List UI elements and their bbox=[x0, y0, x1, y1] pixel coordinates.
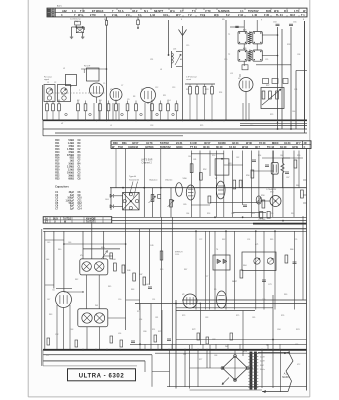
svg-text:C-70uF/25V: C-70uF/25V bbox=[266, 189, 277, 191]
svg-text:R42: R42 bbox=[75, 279, 78, 281]
svg-text:C61: C61 bbox=[193, 159, 196, 161]
svg-text:L9: L9 bbox=[160, 69, 162, 71]
svg-text:R65: R65 bbox=[270, 239, 273, 241]
svg-text:R1: R1 bbox=[58, 100, 60, 102]
svg-text:BUX: BUX bbox=[53, 218, 58, 220]
svg-text:N ARNUS: N ARNUS bbox=[218, 9, 230, 13]
svg-text:2 44: 2 44 bbox=[112, 13, 118, 17]
svg-text:50μF: 50μF bbox=[69, 203, 75, 205]
svg-text:C64: C64 bbox=[186, 213, 189, 215]
svg-text:1.2kΩ: 1.2kΩ bbox=[68, 143, 74, 145]
svg-text:Channel 2: Channel 2 bbox=[142, 163, 153, 165]
svg-text:F 30: F 30 bbox=[264, 13, 270, 17]
svg-text:R24: R24 bbox=[219, 92, 222, 94]
svg-text:1 4: 1 4 bbox=[72, 9, 76, 13]
svg-text:L2: L2 bbox=[63, 68, 65, 70]
svg-text:Volume: Volume bbox=[165, 180, 173, 182]
svg-text:C85: C85 bbox=[252, 317, 255, 319]
svg-text:C40: C40 bbox=[250, 125, 253, 127]
svg-text:C48: C48 bbox=[70, 329, 73, 331]
svg-text:C55: C55 bbox=[293, 22, 296, 24]
svg-text:R53: R53 bbox=[207, 213, 210, 215]
svg-text:47kΩ: 47kΩ bbox=[68, 151, 74, 154]
svg-text:circuit: circuit bbox=[186, 78, 191, 81]
svg-text:R12: R12 bbox=[55, 146, 60, 148]
svg-text:T4: T4 bbox=[216, 249, 218, 251]
svg-text:C83: C83 bbox=[205, 317, 208, 319]
svg-text:2 44: 2 44 bbox=[238, 13, 244, 17]
svg-text:W 6: W 6 bbox=[214, 13, 219, 17]
svg-text:R6: R6 bbox=[115, 100, 117, 102]
svg-text:C79: C79 bbox=[262, 299, 265, 301]
svg-text:R56: R56 bbox=[246, 175, 249, 177]
svg-text:C54: C54 bbox=[139, 319, 142, 321]
svg-text:4μF: 4μF bbox=[70, 194, 75, 197]
svg-text:TA/TO2: TA/TO2 bbox=[160, 141, 169, 145]
svg-text:W 34: W 34 bbox=[242, 145, 249, 149]
svg-text:R9: R9 bbox=[151, 100, 153, 102]
svg-text:74 S: 74 S bbox=[200, 13, 206, 17]
svg-text:470kΩ: 470kΩ bbox=[67, 154, 74, 157]
svg-text:Capacitors: Capacitors bbox=[55, 185, 69, 189]
svg-text:24 31: 24 31 bbox=[176, 141, 183, 145]
svg-text:B.U: B.U bbox=[106, 199, 110, 201]
svg-text:L1: L1 bbox=[61, 94, 63, 96]
svg-text:N 1: N 1 bbox=[144, 9, 149, 13]
svg-text:7 2: 7 2 bbox=[188, 13, 192, 17]
svg-text:4 1: 4 1 bbox=[240, 9, 244, 13]
svg-text:10kΩ: 10kΩ bbox=[68, 164, 74, 166]
svg-text:R2: R2 bbox=[77, 100, 79, 102]
svg-text:C52: C52 bbox=[55, 334, 58, 336]
svg-text:Tweeter A: Tweeter A bbox=[129, 178, 139, 181]
svg-text:4 T: 4 T bbox=[180, 9, 184, 13]
svg-text:43 57: 43 57 bbox=[132, 141, 139, 145]
svg-text:R40: R40 bbox=[58, 249, 61, 251]
svg-text:43 44: 43 44 bbox=[232, 141, 239, 145]
svg-text:50c/s: 50c/s bbox=[260, 369, 265, 371]
svg-text:R76: R76 bbox=[281, 315, 284, 317]
svg-text:1 TC: 1 TC bbox=[294, 9, 300, 13]
svg-text:R25: R25 bbox=[200, 125, 203, 127]
svg-text:R74: R74 bbox=[296, 329, 299, 331]
svg-text:C11: C11 bbox=[150, 59, 153, 61]
svg-text:First IF: First IF bbox=[84, 65, 91, 68]
svg-text:54kΩ: 54kΩ bbox=[68, 139, 74, 142]
svg-text:R62: R62 bbox=[222, 239, 225, 241]
svg-text:1.5kΩ: 1.5kΩ bbox=[68, 170, 74, 172]
svg-text:C11: C11 bbox=[78, 200, 83, 202]
svg-text:R54: R54 bbox=[258, 155, 261, 157]
svg-text:8μF: 8μF bbox=[70, 206, 75, 208]
svg-text:L 40: L 40 bbox=[252, 13, 258, 17]
svg-text:30 8: 30 8 bbox=[290, 13, 296, 17]
svg-text:43/TO3: 43/TO3 bbox=[145, 145, 154, 149]
svg-text:4R: 4R bbox=[304, 142, 307, 145]
svg-text:R71: R71 bbox=[137, 311, 140, 313]
svg-text:C14: C14 bbox=[78, 207, 83, 210]
svg-text:40 57: 40 57 bbox=[204, 141, 211, 145]
svg-text:L11: L11 bbox=[46, 355, 49, 357]
svg-text:W E: W E bbox=[274, 9, 279, 13]
svg-text:T 6: T 6 bbox=[192, 9, 196, 13]
svg-text:R4: R4 bbox=[99, 100, 101, 102]
svg-text:R28: R28 bbox=[287, 44, 290, 46]
svg-text:C87: C87 bbox=[183, 354, 186, 356]
svg-text:R13: R13 bbox=[55, 149, 60, 151]
svg-text:SEC: SEC bbox=[260, 365, 265, 367]
svg-text:R18: R18 bbox=[55, 164, 60, 166]
svg-text:C82: C82 bbox=[212, 339, 215, 341]
svg-text:V4: V4 bbox=[238, 78, 240, 80]
svg-text:R48: R48 bbox=[131, 289, 134, 291]
svg-text:R19: R19 bbox=[55, 167, 60, 169]
svg-text:34 MO: 34 MO bbox=[218, 141, 226, 145]
svg-text:2 9: 2 9 bbox=[126, 13, 130, 17]
svg-text:NE NTT: NE NTT bbox=[154, 9, 164, 13]
svg-text:R17: R17 bbox=[55, 161, 60, 163]
svg-text:R57: R57 bbox=[252, 213, 255, 215]
svg-text:R46: R46 bbox=[127, 270, 130, 272]
svg-text:C71: C71 bbox=[255, 244, 258, 246]
svg-text:44/34/43: 44/34/43 bbox=[128, 145, 138, 149]
svg-text:44 9: 44 9 bbox=[163, 13, 169, 17]
svg-text:T W: T W bbox=[80, 9, 85, 13]
svg-text:2.2MΩ: 2.2MΩ bbox=[67, 167, 74, 169]
svg-text:C88: C88 bbox=[214, 355, 217, 357]
svg-text:C73: C73 bbox=[268, 284, 271, 286]
svg-text:C63: C63 bbox=[228, 163, 231, 165]
svg-text:W 7: W 7 bbox=[296, 141, 301, 145]
svg-text:C84: C84 bbox=[277, 329, 280, 331]
svg-text:C2: C2 bbox=[54, 82, 56, 84]
svg-text:40μF: 40μF bbox=[69, 191, 75, 194]
svg-text:680Ω: 680Ω bbox=[68, 178, 74, 180]
svg-text:TT 34: TT 34 bbox=[190, 145, 197, 149]
svg-text:T2: T2 bbox=[228, 54, 230, 56]
svg-text:Balance: Balance bbox=[150, 180, 159, 182]
svg-text:Type A: Type A bbox=[129, 175, 136, 178]
svg-text:R68: R68 bbox=[232, 281, 235, 283]
svg-text:C12: C12 bbox=[78, 203, 83, 205]
svg-text:R51: R51 bbox=[152, 329, 155, 331]
svg-text:W4: W4 bbox=[95, 305, 98, 307]
svg-text:R64: R64 bbox=[243, 265, 246, 267]
svg-text:C45: C45 bbox=[47, 242, 50, 244]
svg-text:R75: R75 bbox=[236, 315, 239, 317]
svg-text:470Ω: 470Ω bbox=[68, 145, 74, 148]
svg-text:R66: R66 bbox=[290, 249, 293, 251]
svg-text:C13: C13 bbox=[78, 206, 83, 208]
svg-text:W 30: W 30 bbox=[246, 141, 253, 145]
svg-text:V2: V2 bbox=[110, 89, 112, 91]
svg-text:R59: R59 bbox=[297, 155, 300, 157]
svg-text:R43: R43 bbox=[49, 314, 52, 316]
svg-text:3 1: 3 1 bbox=[138, 13, 142, 17]
svg-text:TA A: TA A bbox=[118, 9, 124, 13]
svg-text:C15: C15 bbox=[186, 45, 189, 47]
svg-text:C7: C7 bbox=[121, 85, 123, 87]
svg-text:TO2: TO2 bbox=[118, 145, 123, 149]
svg-text:C9: C9 bbox=[127, 99, 129, 101]
svg-text:C77: C77 bbox=[205, 276, 208, 278]
svg-text:C50: C50 bbox=[118, 299, 121, 301]
svg-text:R20: R20 bbox=[55, 170, 60, 172]
svg-text:L13: L13 bbox=[173, 49, 176, 51]
svg-text:R11: R11 bbox=[55, 143, 60, 145]
svg-text:L10: L10 bbox=[118, 333, 121, 335]
svg-text:C1: C1 bbox=[47, 82, 49, 84]
svg-text:C74: C74 bbox=[247, 239, 250, 241]
svg-text:1kΩ: 1kΩ bbox=[70, 161, 75, 163]
svg-text:2 TN: 2 TN bbox=[90, 13, 96, 17]
svg-text:L40: L40 bbox=[46, 259, 49, 261]
svg-text:7A 43: 7A 43 bbox=[229, 145, 236, 149]
svg-text:R73: R73 bbox=[182, 315, 185, 317]
svg-text:MT4: MT4 bbox=[243, 351, 247, 353]
svg-text:R10: R10 bbox=[55, 140, 60, 142]
svg-text:C44: C44 bbox=[292, 111, 295, 113]
svg-text:TO 44: TO 44 bbox=[267, 145, 275, 149]
svg-text:V8: V8 bbox=[182, 294, 184, 296]
svg-text:R47: R47 bbox=[139, 274, 142, 276]
svg-text:C86: C86 bbox=[295, 344, 298, 346]
svg-text:C49: C49 bbox=[150, 245, 153, 247]
svg-text:R21: R21 bbox=[55, 172, 60, 174]
svg-text:L5: L5 bbox=[110, 125, 112, 127]
svg-text:C46: C46 bbox=[68, 242, 71, 244]
svg-text:1 44: 1 44 bbox=[150, 13, 156, 17]
svg-text:R8: R8 bbox=[133, 96, 135, 98]
svg-text:43/44: 43/44 bbox=[176, 145, 183, 149]
svg-text:ET WALK: ET WALK bbox=[92, 9, 104, 13]
svg-text:C10: C10 bbox=[78, 198, 83, 200]
svg-text:C68: C68 bbox=[231, 213, 234, 215]
svg-text:C5: C5 bbox=[103, 83, 105, 85]
svg-text:C13: C13 bbox=[172, 87, 175, 89]
svg-text:C60: C60 bbox=[188, 156, 191, 158]
svg-text:R49: R49 bbox=[160, 269, 163, 271]
svg-text:R70: R70 bbox=[158, 331, 161, 333]
svg-text:R23: R23 bbox=[205, 89, 208, 91]
svg-text:R15: R15 bbox=[55, 155, 60, 157]
svg-text:R29: R29 bbox=[270, 114, 273, 116]
svg-text:220V: 220V bbox=[260, 361, 265, 363]
svg-text:R16: R16 bbox=[55, 158, 60, 160]
svg-text:BUS/TA2: BUS/TA2 bbox=[160, 145, 171, 149]
svg-text:A.C.: A.C. bbox=[284, 372, 289, 375]
svg-text:R22: R22 bbox=[55, 175, 60, 177]
svg-text:C41: C41 bbox=[294, 89, 297, 91]
svg-text:T1: T1 bbox=[228, 34, 230, 36]
svg-text:R52: R52 bbox=[203, 169, 206, 171]
svg-text:C53: C53 bbox=[273, 22, 276, 24]
svg-text:40/44Q8: 40/44Q8 bbox=[86, 217, 96, 220]
svg-text:ULTRA - 6302: ULTRA - 6302 bbox=[79, 374, 125, 380]
svg-text:30 40: 30 40 bbox=[216, 145, 223, 149]
svg-text:73 40: 73 40 bbox=[259, 141, 266, 145]
svg-text:W 7: W 7 bbox=[176, 13, 181, 17]
svg-text:1.5MΩ: 1.5MΩ bbox=[67, 149, 74, 151]
svg-text:240V: 240V bbox=[260, 357, 265, 359]
svg-text:6 2: 6 2 bbox=[226, 13, 230, 17]
svg-text:V TC: V TC bbox=[205, 9, 211, 13]
svg-text:A32: A32 bbox=[62, 9, 67, 13]
svg-text:C67: C67 bbox=[286, 177, 289, 179]
svg-text:R61: R61 bbox=[291, 213, 294, 215]
svg-text:82Ω: 82Ω bbox=[70, 158, 75, 160]
svg-text:A.M.: A.M. bbox=[243, 28, 247, 31]
svg-text:R30: R30 bbox=[113, 141, 118, 145]
svg-text:BUS: BUS bbox=[266, 9, 272, 13]
svg-text:R27: R27 bbox=[266, 85, 269, 87]
svg-text:43 W: 43 W bbox=[292, 145, 299, 149]
svg-text:TOV/TAV: TOV/TAV bbox=[248, 9, 259, 13]
svg-text:44 34: 44 34 bbox=[284, 141, 291, 145]
svg-text:W 4: W 4 bbox=[78, 13, 83, 17]
svg-text:C30: C30 bbox=[224, 59, 227, 61]
svg-text:C14: C14 bbox=[167, 100, 170, 102]
svg-text:R31: R31 bbox=[122, 141, 127, 145]
svg-text:R23: R23 bbox=[55, 178, 60, 180]
svg-text:R44: R44 bbox=[112, 259, 115, 261]
svg-text:R67: R67 bbox=[184, 269, 187, 271]
svg-text:R11: R11 bbox=[163, 95, 166, 97]
svg-text:C12: C12 bbox=[155, 87, 158, 89]
svg-text:40 7: 40 7 bbox=[255, 145, 261, 149]
svg-text:100μF: 100μF bbox=[67, 198, 74, 200]
svg-text:R50: R50 bbox=[212, 155, 215, 157]
svg-text:C29 R62: C29 R62 bbox=[258, 219, 265, 221]
svg-text:R14: R14 bbox=[55, 151, 60, 154]
svg-text:W6: W6 bbox=[225, 346, 228, 348]
svg-text:7A/TO2: 7A/TO2 bbox=[63, 217, 72, 220]
svg-text:TL 44: TL 44 bbox=[276, 13, 283, 17]
svg-text:1,000μF: 1,000μF bbox=[65, 200, 74, 202]
svg-text:C80: C80 bbox=[143, 331, 146, 333]
svg-text:R69: R69 bbox=[284, 294, 287, 296]
svg-text:34 40: 34 40 bbox=[280, 145, 287, 149]
svg-text:44 73: 44 73 bbox=[146, 141, 153, 145]
svg-text:A32 c: A32 c bbox=[57, 4, 62, 7]
svg-text:V12: V12 bbox=[297, 364, 300, 366]
svg-text:C47: C47 bbox=[47, 299, 50, 301]
svg-text:V1: V1 bbox=[90, 85, 92, 87]
svg-text:C66: C66 bbox=[280, 155, 283, 157]
svg-text:W A: W A bbox=[170, 9, 175, 13]
svg-text:C76: C76 bbox=[294, 239, 297, 241]
svg-text:C70: C70 bbox=[270, 213, 273, 215]
svg-text:C35: C35 bbox=[265, 59, 268, 61]
svg-text:2μF: 2μF bbox=[70, 208, 75, 210]
svg-text:C38: C38 bbox=[297, 54, 300, 56]
svg-text:L42: L42 bbox=[146, 284, 149, 286]
svg-text:V9: V9 bbox=[214, 289, 216, 291]
svg-text:T 1: T 1 bbox=[301, 13, 305, 17]
svg-text:C72: C72 bbox=[199, 239, 202, 241]
svg-text:R45: R45 bbox=[108, 286, 111, 288]
svg-text:100kΩ: 100kΩ bbox=[67, 172, 74, 174]
svg-text:C62: C62 bbox=[236, 157, 239, 159]
svg-text:MO/C: MO/C bbox=[272, 141, 279, 145]
svg-text:R58: R58 bbox=[261, 195, 264, 197]
svg-text:R 6: R 6 bbox=[284, 9, 289, 13]
svg-text:in IF interval: in IF interval bbox=[186, 76, 197, 79]
svg-text:MAINS: MAINS bbox=[282, 376, 290, 379]
svg-text:COIL: COIL bbox=[175, 254, 179, 256]
svg-text:3 4 W: 3 4 W bbox=[190, 141, 197, 145]
svg-text:A.M.: A.M. bbox=[243, 47, 247, 50]
svg-text:R77: R77 bbox=[199, 359, 202, 361]
svg-text:signal: signal bbox=[44, 79, 50, 81]
svg-text:R60: R60 bbox=[296, 185, 299, 187]
svg-text:C65: C65 bbox=[183, 204, 186, 206]
svg-text:C81: C81 bbox=[155, 317, 158, 319]
svg-text:L15: L15 bbox=[230, 73, 233, 75]
svg-text:C18: C18 bbox=[150, 125, 153, 127]
svg-text:40 44: 40 44 bbox=[203, 145, 210, 149]
svg-text:R72: R72 bbox=[192, 329, 195, 331]
svg-text:C51: C51 bbox=[152, 299, 155, 301]
svg-text:R21: R21 bbox=[186, 89, 189, 91]
svg-text:5A: 5A bbox=[45, 217, 48, 220]
svg-text:39kΩ: 39kΩ bbox=[68, 175, 74, 177]
svg-text:VA 2: VA 2 bbox=[132, 9, 138, 13]
svg-text:V3: V3 bbox=[141, 89, 143, 91]
svg-text:LHT'S EAR: LHT'S EAR bbox=[141, 158, 153, 161]
